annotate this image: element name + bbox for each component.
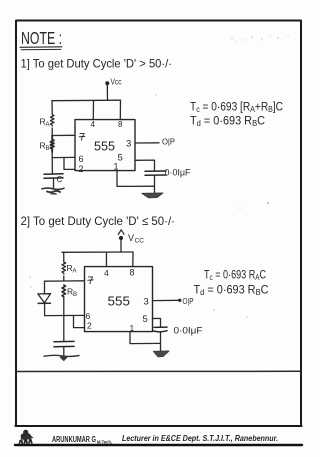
wire rail to pin 4 bbox=[92, 101, 94, 120]
wire RA to node at pin7 level bbox=[51, 128, 53, 136]
svg-text:2: 2 bbox=[79, 164, 84, 174]
svg-text:3: 3 bbox=[126, 139, 131, 150]
node O/P (circuit 2) bbox=[178, 297, 193, 306]
svg-text:2: 2 bbox=[87, 321, 92, 331]
wire rail to pin 4 (circuit 2) bbox=[105, 252, 107, 266]
wire top supply rail (circuit 1) bbox=[52, 99, 121, 102]
svg-text:Vcc: Vcc bbox=[111, 78, 122, 87]
svg-text:B: B bbox=[46, 146, 50, 152]
svg-text:5: 5 bbox=[143, 314, 148, 325]
svg-text:2] To get Duty Cycle 'D' ≤: 2] To get Duty Cycle 'D' ≤ 50·/· bbox=[21, 214, 176, 228]
wire rail to pin 8 bbox=[119, 100, 121, 119]
svg-text:CC: CC bbox=[135, 237, 145, 244]
svg-text:A: A bbox=[46, 122, 50, 128]
wire capacitor to ground bbox=[154, 175, 156, 193]
capacitor 0.01uF (circuit 1) bbox=[145, 171, 166, 175]
ground (circuit 2, left) bbox=[44, 355, 79, 360]
resistor RB (circuit 1) bbox=[40, 136, 54, 153]
wire node to pin 6 bbox=[52, 156, 75, 158]
svg-text:0·0IμF: 0·0IμF bbox=[165, 168, 191, 178]
wire jog pin 6 to pin 2 bbox=[64, 158, 75, 170]
wire pin 5 to control capacitor bbox=[135, 160, 155, 171]
svg-text:4: 4 bbox=[104, 268, 109, 278]
svg-text:O|P: O|P bbox=[162, 138, 175, 147]
svg-text:V: V bbox=[128, 233, 134, 243]
formula Tc = 0.693 [RA+RB]C bbox=[190, 102, 283, 115]
svg-text:8: 8 bbox=[130, 268, 135, 278]
svg-text:O|P: O|P bbox=[183, 297, 194, 306]
svg-text:C: C bbox=[57, 175, 63, 184]
node Vcc (circuit 2) bbox=[118, 230, 144, 245]
wire C2 to ground bbox=[63, 347, 65, 356]
ground (circuit 2, right) bbox=[154, 351, 170, 357]
svg-text:3: 3 bbox=[144, 297, 149, 308]
resistor RA (circuit 2) bbox=[62, 261, 77, 275]
capacitor C (circuit 1) bbox=[44, 174, 63, 184]
IC U2 555 timer body bbox=[85, 267, 153, 332]
svg-text:1: 1 bbox=[114, 162, 119, 172]
svg-text:0·0IμF: 0·0IμF bbox=[174, 326, 204, 336]
svg-text:555: 555 bbox=[108, 295, 131, 309]
wire node to pin 7 bbox=[52, 134, 75, 136]
faint scan specks bbox=[29, 35, 289, 317]
wire rail to pin 8 (circuit 2) bbox=[132, 252, 134, 267]
wire jog to pin 2 (circuit 2) bbox=[74, 316, 85, 328]
svg-text:1] To get Duty Cycle 'D': 1] To get Duty Cycle 'D' > 50·/· bbox=[21, 57, 173, 71]
wire RB to pin 6 node bbox=[51, 152, 53, 158]
svg-text:8: 8 bbox=[118, 120, 123, 129]
wire RB to bottom node bbox=[63, 299, 65, 316]
wire left rail top (circuit 1) bbox=[51, 101, 53, 112]
wire node to pin 7 (circuit 2) bbox=[64, 280, 85, 282]
resistor RB (circuit 2) bbox=[62, 285, 77, 298]
ground (circuit 1, under C) bbox=[42, 188, 64, 194]
wire node left to diode anode bbox=[45, 280, 64, 282]
wire RA to pin 7 node bbox=[63, 276, 65, 281]
wire diode anode stem bbox=[44, 281, 46, 293]
svg-text:NOTE :: NOTE : bbox=[21, 28, 62, 48]
wire Vcc stem (circuit 2) bbox=[120, 239, 122, 252]
svg-text:6: 6 bbox=[79, 154, 84, 164]
footer name text bbox=[52, 433, 278, 445]
wire left rail top (circuit 2) bbox=[63, 252, 65, 261]
ground (circuit 1, right) bbox=[142, 193, 163, 198]
wire node down to capacitor C bbox=[51, 158, 53, 174]
svg-text:M.Tech,: M.Tech, bbox=[97, 439, 113, 445]
wire top supply rail (circuit 2) bbox=[62, 251, 133, 253]
svg-text:4: 4 bbox=[91, 120, 96, 129]
wire C to ground bbox=[53, 178, 55, 187]
heading NOTE bbox=[20, 28, 62, 50]
wire bottom node to pin 6 bbox=[45, 314, 85, 316]
wire pin 1 down and to ground node bbox=[117, 171, 155, 187]
wire pin 3 output bbox=[135, 142, 159, 144]
wire node down to capacitor C2 bbox=[63, 316, 65, 342]
resistor RA (circuit 1) bbox=[40, 112, 55, 128]
formula Td = 0.693 RBC bbox=[190, 116, 265, 129]
IC U1 555 timer body bbox=[75, 120, 135, 171]
svg-text:B: B bbox=[73, 292, 77, 298]
svg-text:Lecturer in E&CE Dept. S.T.J.I: Lecturer in E&CE Dept. S.T.J.I.T., Raneb… bbox=[122, 433, 278, 443]
svg-text:7: 7 bbox=[79, 132, 85, 144]
horizontal rule above footer area bbox=[16, 370, 301, 372]
node Vcc (circuit 1) bbox=[105, 78, 121, 87]
svg-text:6: 6 bbox=[86, 311, 91, 321]
capacitor 0.01uF (circuit 2) bbox=[154, 327, 168, 332]
capacitor C2 bbox=[54, 341, 74, 346]
wire Vcc stem to top rail bbox=[106, 85, 108, 101]
svg-text:ARUNKUMAR G: ARUNKUMAR G bbox=[52, 435, 96, 444]
svg-text:7: 7 bbox=[88, 275, 94, 287]
svg-text:A: A bbox=[73, 269, 77, 275]
footer logo bbox=[19, 430, 34, 444]
wire diode cathode to bottom node bbox=[44, 304, 46, 316]
diode D1 bbox=[38, 294, 51, 304]
wire pin 5 to capacitor (circuit 2) bbox=[153, 318, 161, 327]
wire pin 1 down to ground node (circuit 2) bbox=[130, 332, 161, 344]
wire capacitor 2 to ground bbox=[160, 332, 162, 352]
svg-text:555: 555 bbox=[94, 140, 115, 154]
wire pin 3 output (circuit 2) bbox=[153, 299, 179, 301]
